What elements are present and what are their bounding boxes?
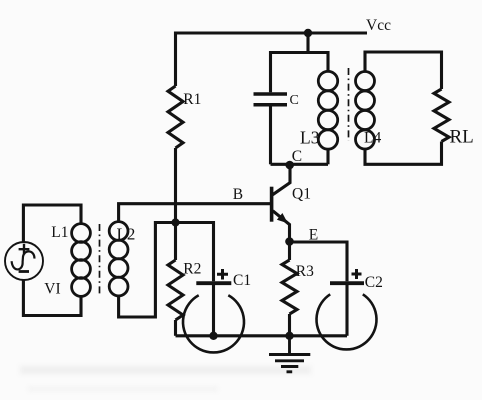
wire: C1 top lead bbox=[212, 221, 215, 281]
capacitor C1: plus sign bbox=[217, 269, 228, 280]
wire: input loop bottom (source to L1 bottom) bbox=[23, 279, 81, 316]
svg-text:C2: C2 bbox=[365, 274, 383, 291]
svg-text:RL: RL bbox=[450, 127, 474, 148]
wire: tank left to capacitor C bbox=[269, 51, 272, 92]
node: C1 bottom junction dot bbox=[209, 332, 217, 340]
capacitor C2: plus sign bbox=[352, 269, 362, 279]
resistor R1 bbox=[168, 86, 183, 148]
node: bias junction dot (R1/R2) bbox=[171, 218, 179, 226]
inductor L1 (primary winding) bbox=[72, 224, 91, 297]
transistor Q1: emitter stroke bbox=[273, 211, 290, 242]
wire: R3 bottom to bottom rail bbox=[288, 314, 291, 336]
svg-text:L1: L1 bbox=[51, 224, 68, 241]
wire: Vcc rail down to R1 bbox=[174, 32, 177, 87]
svg-text:B: B bbox=[233, 186, 243, 203]
wire: L2 top to transistor base bbox=[119, 204, 270, 222]
wire: emitter to R3 top bbox=[288, 242, 291, 260]
capacitor C2: bottom lead bbox=[345, 285, 348, 336]
wire: output loop top bbox=[365, 52, 442, 89]
inductor L3 bbox=[318, 71, 337, 149]
wire: capacitor C to tank bottom bbox=[269, 106, 272, 164]
wire: bottom rail bbox=[176, 334, 348, 337]
capacitor C1: shell (gapped circle) bbox=[183, 295, 244, 352]
inductor L2 (secondary winding) bbox=[109, 222, 128, 296]
transistor Q1: emitter arrowhead bbox=[277, 213, 288, 223]
svg-text:C: C bbox=[290, 93, 299, 108]
capacitor C plates bbox=[254, 94, 288, 105]
wire: input loop top (source to L1) bbox=[23, 205, 81, 243]
node: collector junction dot bbox=[285, 161, 294, 170]
node: junction dot on Vcc rail bbox=[304, 29, 312, 37]
transistor Q1: base bar bbox=[270, 187, 274, 222]
svg-text:Q1: Q1 bbox=[292, 185, 311, 202]
svg-text:C: C bbox=[292, 148, 302, 165]
AC source VI: minus sign bbox=[19, 270, 29, 273]
wire: L3 bottom to tank bottom bbox=[326, 149, 329, 164]
capacitor C2: top plate bbox=[330, 281, 364, 285]
wire: Vcc rail drop to tank bbox=[306, 33, 309, 53]
wire: tank bottom bbox=[271, 163, 329, 166]
wire: bias junction to R2 top bbox=[174, 223, 177, 261]
wire: R2 bottom to bottom rail bbox=[174, 320, 177, 336]
capacitor C1: bottom lead bbox=[212, 285, 215, 336]
wire: R1 bottom down to bias junction bbox=[174, 148, 177, 223]
svg-text:C1: C1 bbox=[233, 272, 251, 289]
svg-text:R3: R3 bbox=[296, 263, 314, 280]
svg-text:R1: R1 bbox=[183, 91, 201, 108]
node: R3/ground junction dot bbox=[285, 332, 293, 340]
resistor RL bbox=[434, 89, 449, 142]
transistor Q1: collector stroke bbox=[273, 164, 291, 195]
node: emitter junction dot E bbox=[285, 237, 294, 246]
svg-text:R2: R2 bbox=[183, 261, 201, 278]
ground symbol bbox=[269, 336, 310, 372]
AC source VI: circle bbox=[5, 242, 43, 280]
capacitor C1: top plate bbox=[196, 281, 231, 285]
wire: emitter node to C2 top bbox=[290, 242, 348, 281]
transformer core T1 (dash line) bbox=[99, 224, 101, 296]
svg-text:VI: VI bbox=[44, 280, 60, 297]
resistor R2 bbox=[168, 260, 183, 320]
wire: tank top bbox=[271, 51, 329, 54]
svg-text:L3: L3 bbox=[300, 128, 320, 148]
wire: Vcc top rail bbox=[176, 31, 368, 34]
AC source VI: sine squiggle bbox=[12, 251, 35, 269]
inductor L4 bbox=[356, 72, 375, 150]
capacitor C2: shell (gapped circle) bbox=[317, 294, 377, 349]
transformer core T2 (dash line) bbox=[348, 68, 350, 141]
svg-text:Vcc: Vcc bbox=[366, 17, 391, 34]
wire: output loop bottom bbox=[365, 142, 442, 165]
resistor R3 bbox=[282, 260, 297, 314]
AC source VI: plus sign bbox=[19, 244, 30, 255]
wire: tank right top to L3 bbox=[326, 51, 329, 72]
wire: left leg down to L2 bottom bbox=[119, 221, 156, 317]
wire: bias junction horizontal bbox=[155, 221, 213, 224]
